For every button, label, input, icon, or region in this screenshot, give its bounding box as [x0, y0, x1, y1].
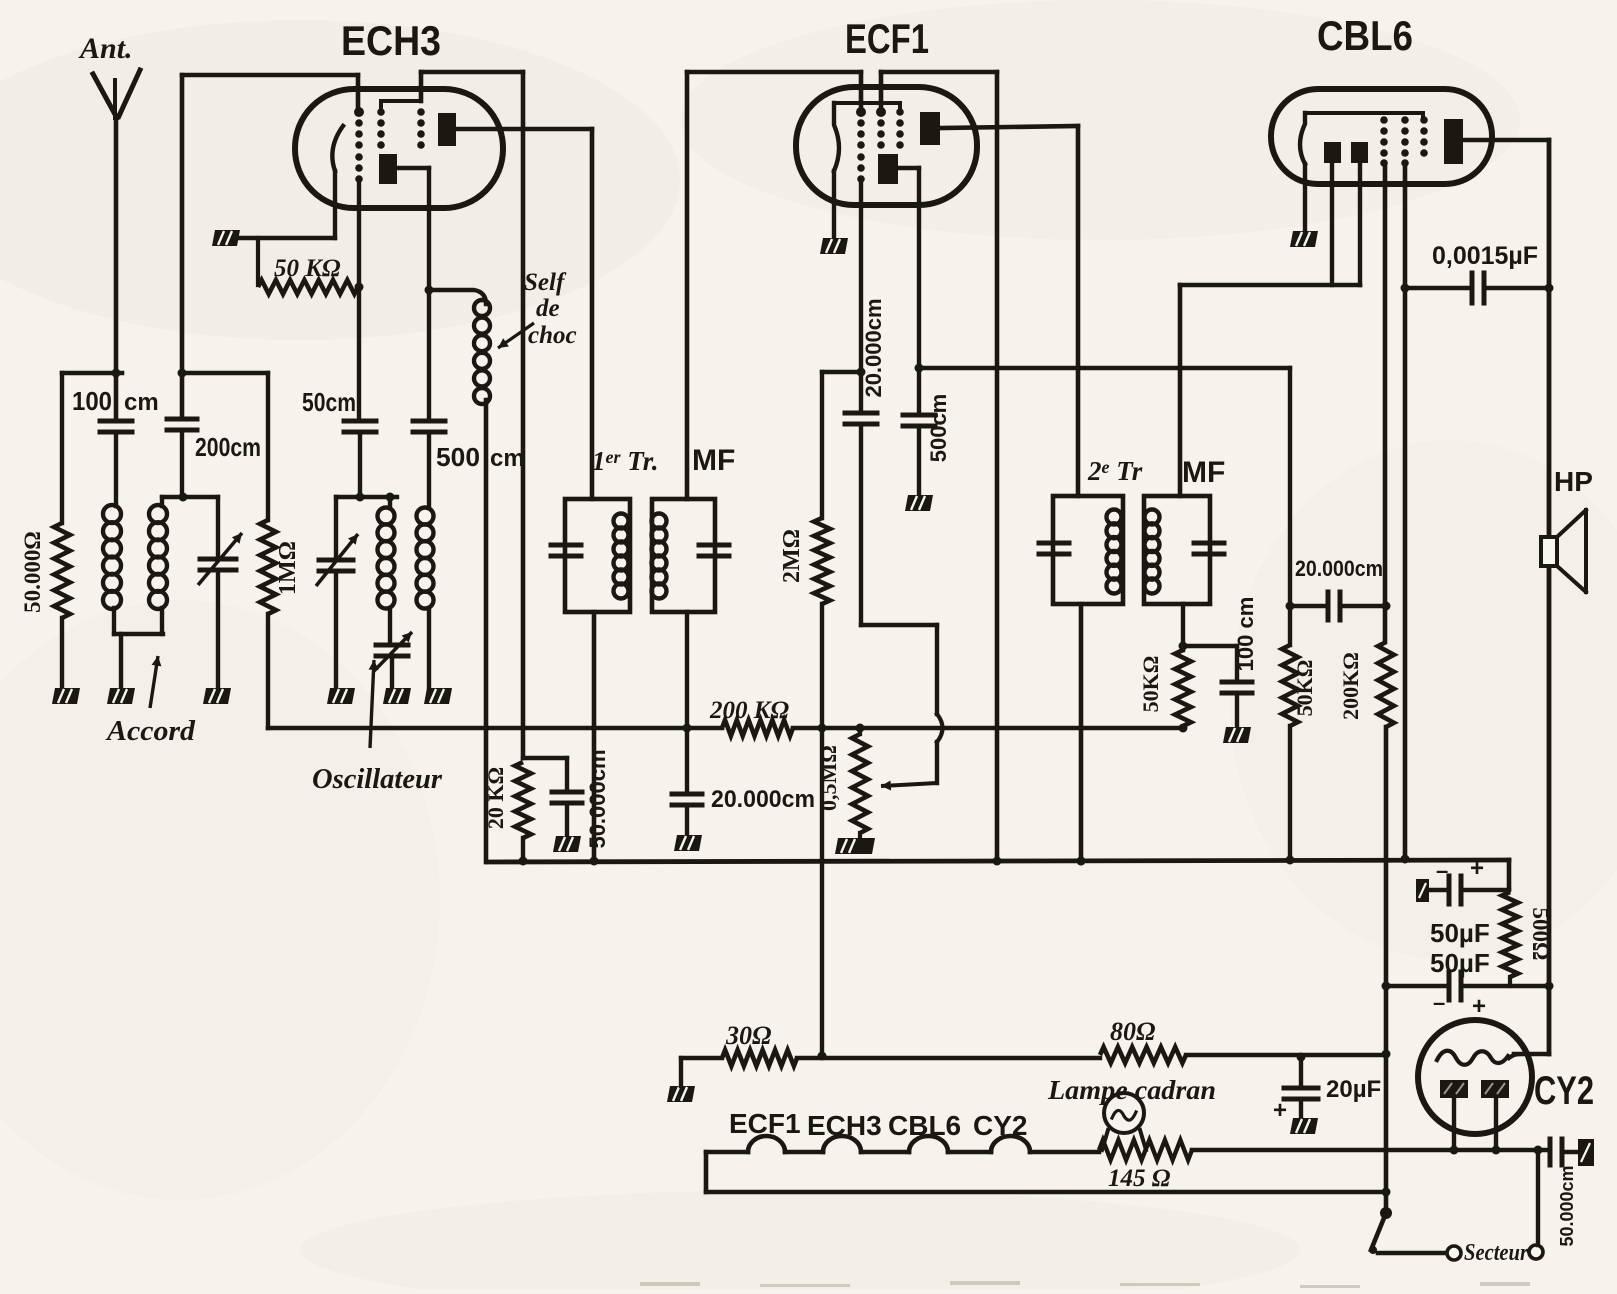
capacitor 0,0015µF [1405, 242, 1554, 303]
node Secteur terminals [1447, 1240, 1543, 1266]
svg-text:50µF: 50µF [1430, 948, 1490, 978]
svg-text:ECH3: ECH3 [341, 17, 441, 64]
svg-text:80Ω: 80Ω [1110, 1017, 1155, 1046]
wire 2e Tr secondary bottom [1179, 604, 1188, 651]
scan smudges bottom edge [640, 1281, 1530, 1288]
capacitor 200cm [167, 419, 261, 497]
inductor 1er Tr secondary [652, 514, 667, 599]
resistor 2MΩ [779, 372, 830, 1061]
svg-text:20.000cm: 20.000cm [711, 786, 815, 813]
tube ECF1 triode plate [878, 154, 898, 184]
capacitor 20.000cm (coupling) [1290, 556, 1391, 620]
tube ECH3 envelope [295, 89, 503, 208]
wire detector plate line [919, 368, 1295, 611]
label ECH3 [341, 17, 441, 64]
wire dropper [681, 1058, 722, 1086]
svg-text:50.000cm: 50.000cm [1557, 1165, 1577, 1246]
tube CBL6 plate [1444, 119, 1463, 164]
svg-text:500cm: 500cm [926, 394, 951, 463]
wire 1er Tr secondary top [685, 72, 690, 499]
resistor 200KΩ [709, 697, 793, 736]
ground G2 [107, 688, 135, 704]
resistor 80Ω [1100, 1017, 1186, 1063]
capacitor 500cm (det plate) [903, 394, 951, 495]
ground G9 [674, 835, 702, 851]
svg-text:1MΩ: 1MΩ [275, 541, 301, 595]
resistor 50KΩ (det load) [1282, 606, 1317, 865]
capacitor 20.000cm (IF bypass) [672, 786, 815, 835]
wire heater return corner [704, 1152, 709, 1192]
label 2e Tr MF [1087, 456, 1225, 489]
ground G7 [424, 688, 452, 704]
svg-text:200cm: 200cm [195, 432, 261, 462]
tube ECH3 hexode plate [438, 113, 456, 146]
svg-text:CBL6: CBL6 [1317, 12, 1413, 59]
svg-text:+: + [1273, 1097, 1287, 1124]
wire antenna lead-in [112, 116, 121, 419]
wire AVC to 1M [182, 371, 268, 375]
svg-text:+: + [1472, 993, 1486, 1020]
wire AVC to grid (2M top) [822, 370, 861, 374]
resistor 500Ω [1502, 892, 1553, 986]
capacitor 50cm [302, 387, 376, 497]
capacitor 100cm [1183, 597, 1258, 727]
svg-text:20.000cm: 20.000cm [861, 298, 886, 397]
label heater tubes [729, 1108, 1027, 1141]
wire 1er Tr secondary bottom [683, 612, 692, 792]
capacitor 50.000cm (mains) [1550, 1139, 1578, 1247]
wire diode line [1180, 285, 1360, 496]
ground G14 (CBL6 cathode) [1290, 231, 1318, 247]
wire heater to CY2 [1192, 1146, 1550, 1155]
ground G13 [1223, 727, 1251, 743]
svg-text:50.000Ω: 50.000Ω [20, 531, 45, 613]
capacitor 2e Tr primary [1039, 543, 1069, 554]
svg-text:CBL6: CBL6 [888, 1110, 961, 1141]
wire ECF1 grid lead [857, 180, 866, 410]
wire dropper right [1186, 1053, 1386, 1057]
svg-text:1er Tr.: 1er Tr. [592, 446, 659, 476]
svg-text:ECF1: ECF1 [729, 1108, 801, 1139]
capacitor 20.000cm (grid) [845, 298, 886, 625]
potentiometer 0,5MΩ [816, 724, 868, 839]
wire CBL6 grid lead [1383, 163, 1388, 642]
resistor 50KΩ (osc grid leak) [258, 238, 358, 294]
capacitor 2e Tr secondary [1194, 543, 1224, 554]
inductor 1er Tr primary [614, 514, 629, 599]
tube ECH3 triode plate [379, 154, 397, 184]
svg-text:2e Tr: 2e Tr [1087, 456, 1143, 486]
ground G8 [553, 836, 581, 852]
wire ECF1 pentode plate out [940, 126, 1078, 496]
tube ECF1 pentode plate [920, 112, 940, 145]
wire 2e Tr primary return [1077, 604, 1086, 866]
svg-text:2MΩ: 2MΩ [779, 529, 805, 583]
tube ECF1 grid column g1 [856, 107, 866, 183]
svg-text:CY2: CY2 [973, 1110, 1027, 1141]
resistor 30Ω [722, 1021, 797, 1066]
svg-text:HP: HP [1554, 466, 1593, 497]
svg-text:cm: cm [490, 445, 525, 472]
wire heater chain with filaments [706, 1136, 1099, 1152]
speaker HP [1541, 466, 1593, 592]
wire top-left bus [62, 371, 122, 376]
terminal antenna earth [1578, 1139, 1594, 1166]
tube ECH3 cathode [240, 126, 343, 238]
label Accord [105, 656, 196, 747]
svg-text:MF: MF [692, 444, 735, 477]
svg-text:ECH3: ECH3 [807, 1110, 882, 1141]
tube CBL6 grid column g2 [1401, 116, 1409, 167]
svg-text:50.000cm: 50.000cm [585, 749, 610, 848]
ground G10 (ECF1 cathode) [820, 238, 848, 254]
wire 1er Tr primary feed [590, 129, 595, 499]
capacitor 1er Tr primary [551, 545, 581, 556]
variable capacitor padder [374, 632, 412, 688]
tube CY2 filament [1437, 1051, 1520, 1065]
ground G11 [905, 495, 933, 511]
svg-text:50µF: 50µF [1430, 918, 1490, 948]
wire ECH3 plate out [456, 127, 592, 132]
wire ECH3 screen top [421, 72, 523, 101]
wire ECF1 grid top [687, 72, 861, 112]
svg-text:ECF1: ECF1 [845, 15, 929, 62]
ground G4 (ECH3 cathode) [212, 230, 240, 246]
capacitor 20µF [1273, 1057, 1381, 1124]
svg-text:20µF: 20µF [1326, 1076, 1381, 1103]
tube CBL6 cathode [1300, 113, 1423, 231]
wire 200cm branch [178, 75, 187, 416]
label CBL6 [1317, 12, 1413, 59]
capacitor 100cm [72, 386, 159, 506]
svg-text:500: 500 [436, 442, 480, 472]
svg-text:50KΩ: 50KΩ [1138, 656, 1163, 713]
svg-text:50KΩ: 50KΩ [1292, 660, 1317, 717]
ground G3 [203, 688, 231, 704]
inductor 2e Tr primary [1107, 510, 1122, 594]
svg-text:de: de [536, 295, 560, 322]
inductor L3 oscillator [378, 497, 395, 643]
node Ant (antenna) [78, 32, 140, 118]
svg-text:Oscillateur: Oscillateur [312, 763, 443, 795]
wire ECF1 screen feed [995, 72, 1000, 860]
transformer 2e Tr MF primary box [1053, 496, 1123, 604]
resistor 50KΩ (detector) [1138, 650, 1191, 726]
wire CBL6 screen lead [1401, 163, 1410, 864]
svg-text:cm: cm [124, 389, 159, 416]
svg-text:Accord: Accord [105, 715, 196, 747]
wire dropper mid [797, 1053, 1306, 1062]
tube CY2 envelope [1418, 1020, 1532, 1134]
tube ECH3 grid column g2 [377, 108, 385, 149]
wire B- rail [1382, 727, 1391, 1213]
tube CBL6 diode anodes [1324, 142, 1368, 163]
svg-text:Self: Self [524, 269, 567, 296]
tube CBL6 grid column g1 [1380, 116, 1388, 167]
svg-text:0,5MΩ: 0,5MΩ [816, 745, 841, 811]
svg-text:20.000cm: 20.000cm [1295, 556, 1383, 581]
inductor L2 antenna secondary [149, 497, 167, 634]
inductor L4 oscillator feedback [417, 432, 434, 688]
label ECF1 [845, 15, 929, 62]
wire CBL6 diode leads [1332, 163, 1360, 285]
tube CY2 anodes [1440, 1080, 1509, 1098]
svg-text:20 KΩ: 20 KΩ [483, 767, 508, 829]
resistor 145Ω (lamp shunt) [1099, 1140, 1192, 1192]
svg-text:MF: MF [1182, 456, 1225, 489]
transformer 2e Tr MF secondary box [1144, 496, 1210, 604]
wire secondary top [162, 493, 218, 502]
svg-text:+: + [1470, 855, 1484, 882]
svg-text:100 cm: 100 cm [1233, 597, 1258, 672]
inductor Self de choc [429, 290, 490, 862]
wire AVC bus [268, 724, 1188, 733]
wire heater return [706, 1190, 1386, 1195]
wire HP line [1514, 140, 1549, 1054]
tube CBL6 grid column g3 [1420, 116, 1428, 157]
svg-text:145 Ω: 145 Ω [1108, 1165, 1171, 1192]
svg-text:Lampe cadran: Lampe cadran [1047, 1075, 1216, 1105]
svg-text:CY2: CY2 [1534, 1069, 1594, 1113]
wire grid jog to wiper [861, 625, 943, 791]
wire ECH3 grid top [182, 75, 358, 114]
wire coil bottoms [114, 634, 163, 688]
tube ECF1 grid column g2 [876, 107, 886, 149]
svg-text:50 KΩ: 50 KΩ [274, 255, 341, 282]
svg-text:–: – [1436, 858, 1448, 883]
variable capacitor Accord tuning [198, 497, 242, 688]
resistor 200KΩ (grid leak) [1338, 642, 1394, 727]
svg-text:500Ω: 500Ω [1528, 908, 1553, 961]
capacitor 50µF (1st) [1416, 855, 1509, 948]
variable capacitor oscillator [316, 497, 358, 688]
inductor L1 antenna primary [103, 505, 121, 634]
tube ECH3 grid column g1 [354, 107, 364, 183]
svg-text:200 KΩ: 200 KΩ [709, 697, 789, 724]
capacitor 50.000cm [523, 749, 610, 848]
tube ECF1 cathode [834, 103, 900, 238]
label Oscillateur [312, 660, 443, 795]
ground G12 [835, 838, 875, 854]
capacitor 1er Tr secondary [699, 545, 729, 556]
resistor 1MΩ [260, 373, 301, 728]
ground G15 [667, 1086, 695, 1102]
lamp Lampe cadran [1047, 1075, 1216, 1150]
capacitor 500cm (osc) [413, 290, 525, 472]
wire 1er Tr primary return [592, 612, 597, 862]
wire ECF1 screen top [881, 72, 997, 112]
ground G5 [327, 688, 355, 704]
svg-text:100: 100 [72, 386, 112, 416]
svg-text:200KΩ: 200KΩ [1338, 652, 1363, 720]
switch mains [1369, 1207, 1447, 1254]
ground G6 [383, 688, 411, 704]
wire CY2 anode leads [1450, 1098, 1501, 1155]
inductor 2e Tr secondary [1145, 510, 1160, 594]
ground G1 [52, 688, 80, 704]
label 1er Tr MF [592, 444, 735, 477]
svg-text:30Ω: 30Ω [725, 1021, 771, 1050]
wire B+ bus [487, 857, 1509, 866]
svg-text:Ant.: Ant. [78, 32, 133, 65]
wire mains riser [1536, 1150, 1540, 1245]
capacitor 50µF (2nd) [1386, 948, 1554, 1020]
wire ECH3 triode plate out [397, 168, 434, 295]
resistor 50.000Ω [20, 373, 70, 688]
svg-text:50cm: 50cm [302, 387, 356, 417]
ground G16 [1290, 1118, 1318, 1134]
wire ECF1 triode plate out [898, 168, 924, 412]
tube CBL6 envelope [1271, 89, 1492, 184]
tube ECH3 grid column g3 [381, 101, 425, 149]
wire B+ corner to filter [1507, 860, 1512, 889]
label CY2 [1534, 1069, 1594, 1113]
label Self de choc [498, 269, 577, 349]
wire osc tank top [336, 493, 397, 502]
wire CBL6 plate out [1463, 138, 1549, 143]
wire ECH3 osc grid lead [355, 181, 364, 418]
resistor 20KΩ [483, 762, 531, 862]
transformer 1er Tr MF primary box [565, 499, 630, 612]
svg-text:Secteur: Secteur [1464, 1240, 1529, 1266]
svg-text:choc: choc [528, 322, 577, 349]
transformer 1er Tr MF secondary box [652, 499, 715, 612]
tube ECF1 grid column g3 [896, 108, 904, 149]
svg-text:0,0015µF: 0,0015µF [1432, 242, 1538, 270]
wire ECH3 screen feed [521, 72, 526, 758]
tube ECF1 envelope [796, 87, 977, 205]
svg-text:–: – [1433, 990, 1445, 1015]
